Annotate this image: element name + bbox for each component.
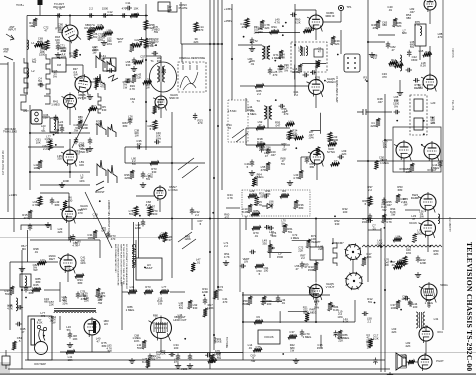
svg-text:R394.7K: R394.7K	[96, 119, 102, 126]
capacitor C66	[190, 208, 194, 215]
resistor R85	[252, 226, 261, 230]
svg-text:TO ANT300 OHM: TO ANT300 OHM	[53, 2, 66, 9]
junction (power)	[400, 309, 402, 311]
resistor (tuner)	[74, 49, 78, 58]
resistor R116	[408, 360, 415, 364]
ground	[87, 146, 93, 151]
tube V7 video det	[58, 253, 76, 274]
wire	[238, 44, 262, 46]
tube V18 damper	[418, 192, 436, 213]
tube V19 horiz out	[419, 219, 436, 239]
rect hatch	[423, 288, 435, 296]
junction (sync)	[295, 147, 297, 149]
wire jog	[44, 96, 50, 104]
svg-text:C7510K: C7510K	[256, 345, 262, 352]
wire jog	[20, 95, 27, 110]
svg-text:BOOST: BOOST	[95, 190, 105, 194]
tube V17 audio output	[422, 141, 440, 162]
capacitor (bottom2)	[205, 353, 212, 357]
terminal pin	[347, 67, 349, 69]
capacitor (sound)	[407, 50, 411, 57]
svg-text:L82330: L82330	[157, 56, 162, 63]
ground	[397, 90, 403, 95]
component box osc slug	[103, 58, 116, 71]
svg-text:C36470: C36470	[100, 82, 106, 89]
resistor R72	[28, 210, 32, 219]
svg-text:L1: L1	[31, 41, 35, 45]
svg-text:C41470: C41470	[222, 297, 228, 304]
wire	[30, 132, 90, 134]
wire	[82, 92, 84, 100]
junction	[367, 160, 369, 162]
wire	[29, 180, 31, 190]
waveform	[107, 58, 115, 72]
svg-text:L785%: L785%	[129, 209, 134, 216]
svg-text:2.2: 2.2	[89, 7, 93, 11]
wire	[5, 350, 7, 356]
wire	[5, 365, 7, 369]
ground	[19, 266, 25, 271]
svg-text:6CU6: 6CU6	[409, 221, 417, 225]
terminal pin	[354, 62, 356, 64]
junction	[213, 177, 215, 179]
junction	[213, 43, 215, 45]
resistor R84	[294, 200, 298, 209]
svg-text:C14470: C14470	[198, 25, 204, 32]
wire	[315, 219, 317, 248]
tube pin fan	[154, 322, 167, 332]
capacitor C41	[386, 42, 390, 49]
castellated shield line	[333, 238, 337, 266]
component box in shield	[314, 49, 323, 57]
wire	[68, 193, 70, 207]
CRT neck symbol	[35, 342, 48, 355]
inductor L25	[438, 214, 440, 224]
capacitor (conv)	[152, 51, 159, 55]
capacitor C52	[394, 110, 401, 114]
wire (vout)	[320, 335, 322, 348]
wire	[159, 199, 161, 212]
svg-text:R21330.5W: R21330.5W	[303, 306, 308, 315]
svg-text:R11K: R11K	[29, 21, 33, 28]
capacitor (vert)	[264, 225, 271, 229]
svg-text:L4110K: L4110K	[68, 355, 73, 362]
junction	[221, 43, 223, 45]
svg-text:FOCUS: FOCUS	[264, 335, 273, 339]
resistor R114	[288, 335, 297, 339]
svg-text:300 OHMTWIN LEAD: 300 OHMTWIN LEAD	[3, 127, 17, 134]
junction	[315, 321, 317, 323]
resistor R87	[314, 262, 318, 271]
svg-text:L294.7K: L294.7K	[249, 189, 255, 196]
diagonal slash	[232, 129, 248, 142]
resistor R42	[48, 140, 52, 150]
svg-text:C37.047: C37.047	[289, 330, 295, 337]
junction	[217, 286, 219, 288]
junction (sync)	[269, 107, 271, 109]
potentiometer vert hold wiper	[272, 247, 275, 249]
svg-text:C864.7K: C864.7K	[72, 241, 78, 248]
capacitor (HV)	[15, 322, 22, 326]
svg-text:C764.7K: C764.7K	[315, 75, 321, 82]
inductor L16	[400, 55, 402, 71]
junction (video IF)	[243, 36, 245, 38]
wire	[191, 219, 193, 231]
tube V21 horiz output	[149, 316, 172, 342]
resistor R11	[144, 20, 148, 30]
junction (sweep)	[203, 294, 205, 296]
wire (vout)	[279, 311, 281, 323]
capacitor C99	[408, 300, 412, 307]
terminal pin	[354, 57, 356, 59]
svg-text:100K: 100K	[63, 179, 70, 183]
capacitor C35	[136, 145, 143, 149]
svg-text:R9110K: R9110K	[265, 189, 271, 196]
resistor R13	[130, 14, 139, 18]
junction (audio)	[396, 120, 398, 122]
resistor R82	[280, 194, 289, 198]
wire	[0, 289, 12, 291]
svg-text:+140V: +140V	[9, 193, 17, 197]
junction (hout)	[390, 261, 392, 263]
junction	[231, 58, 233, 60]
fold line	[0, 352, 476, 354]
wire	[82, 65, 84, 76]
resistor R103	[66, 350, 75, 354]
resistor (sweep)	[203, 308, 207, 317]
wire	[295, 9, 316, 11]
waveform RF response	[96, 52, 105, 68]
capacitor C97	[276, 296, 280, 303]
capacitor C96	[203, 298, 207, 305]
svg-text:SWEEP PLATE CIRCUITS WITH ORDI: SWEEP PLATE CIRCUITS WITH ORDINARY	[119, 244, 122, 287]
svg-text:OVERALL RESPONSE: OVERALL RESPONSE	[179, 57, 205, 60]
svg-text:TO YOKE: TO YOKE	[225, 337, 228, 348]
svg-text:V105: V105	[181, 367, 188, 371]
resistor R15	[132, 74, 136, 83]
svg-text:R131500: R131500	[308, 265, 315, 272]
svg-text:C57680: C57680	[309, 162, 315, 169]
tube V3 1st IF amp	[62, 93, 77, 111]
svg-text:R608.2K: R608.2K	[295, 18, 301, 25]
svg-text:L70.047: L70.047	[101, 226, 107, 233]
component box height	[310, 247, 323, 260]
wire	[29, 105, 31, 180]
component box quad coil	[415, 24, 426, 46]
wire	[323, 21, 341, 23]
svg-text:L55330: L55330	[126, 60, 131, 67]
svg-text:L6922K: L6922K	[342, 149, 347, 156]
junction (sound IF)	[145, 120, 147, 122]
potentiometer vert size wiper	[332, 305, 335, 307]
ground	[45, 222, 51, 227]
resistor R52	[256, 143, 265, 147]
resistor R75	[134, 206, 138, 216]
tube V9 video amp	[307, 78, 324, 98]
svg-text:ANT: ANT	[23, 109, 29, 113]
svg-text:6AU6SND IF: 6AU6SND IF	[169, 93, 179, 100]
junction (conv)	[155, 44, 157, 46]
svg-text:L5222K: L5222K	[286, 133, 291, 140]
resistor (HV)	[12, 341, 16, 350]
wire	[59, 282, 61, 302]
svg-text:R85120K: R85120K	[184, 234, 191, 241]
resistor (conv2)	[133, 43, 142, 47]
diode X1	[262, 204, 272, 209]
wire bottom inner bus	[25, 359, 385, 361]
resistor R101	[10, 286, 14, 295]
junction (hout)	[430, 245, 432, 247]
capacitor C91	[24, 286, 28, 293]
wire	[180, 2, 182, 44]
junction	[209, 218, 211, 220]
svg-text:R54680: R54680	[406, 13, 412, 20]
capacitor C46	[250, 160, 254, 167]
wire	[160, 56, 162, 66]
svg-text:R88330.5W: R88330.5W	[216, 351, 221, 360]
junction (sound)	[366, 80, 368, 82]
svg-text:R48.047: R48.047	[377, 97, 383, 104]
svg-text:C15470: C15470	[148, 172, 154, 179]
resistor R32	[260, 20, 264, 29]
tube V11 horiz osc	[154, 185, 166, 201]
capacitor C73	[300, 262, 304, 269]
resistor R92	[396, 194, 400, 203]
capacitor (sync2)	[279, 104, 286, 108]
wire	[429, 46, 431, 75]
wire	[136, 195, 154, 197]
ground	[187, 363, 193, 368]
svg-text:R60470: R60470	[224, 213, 230, 220]
resistor R5	[88, 30, 92, 40]
resistor R21	[194, 22, 198, 32]
capacitor (HV)	[17, 305, 24, 309]
junction (vert)	[308, 241, 310, 243]
waveform marker	[108, 75, 118, 81]
wire	[69, 164, 71, 178]
wire	[380, 228, 382, 372]
capacitor C25	[303, 73, 310, 77]
inductor L9	[306, 46, 308, 56]
dotted box sync shield	[242, 190, 310, 216]
junction	[315, 294, 317, 296]
svg-text:C35470: C35470	[136, 139, 142, 146]
resistor R45	[376, 20, 380, 29]
wire	[340, 30, 342, 54]
wire antenna lead	[7, 62, 9, 212]
svg-text:C7222K: C7222K	[298, 246, 304, 253]
svg-text:R86470.5W: R86470.5W	[78, 115, 83, 124]
junction (hout)	[384, 227, 386, 229]
junction (HV)	[43, 335, 45, 337]
box audio stage	[393, 127, 441, 172]
wire	[429, 10, 431, 24]
scan smudge left	[0, 362, 10, 373]
antenna arrow	[6, 34, 14, 40]
svg-text:C4010K10%: C4010K10%	[156, 131, 162, 140]
wire (video IF)	[294, 65, 296, 80]
svg-text:+135V: +135V	[224, 7, 232, 11]
junction (hosc)	[139, 215, 141, 217]
transformer T1 1st IF	[157, 66, 165, 82]
scan edge bottom	[0, 373, 476, 375]
resistor (conv)	[134, 60, 143, 64]
wire vert bus 3	[217, 0, 219, 300]
terminal	[38, 0, 43, 5]
junction (video IF)	[250, 41, 252, 43]
resistor (vout)	[305, 313, 309, 322]
resistor R111	[248, 296, 252, 305]
wire	[378, 34, 395, 36]
svg-text:R9.01: R9.01	[399, 258, 403, 265]
wire (sync)	[320, 113, 322, 134]
junction (vout)	[282, 353, 284, 355]
wire	[21, 250, 23, 369]
svg-text:R34120K: R34120K	[202, 287, 209, 294]
waveform	[108, 165, 117, 183]
resistor (hout)	[413, 234, 417, 243]
wire right edge rail	[442, 0, 444, 330]
resistor (sync)	[328, 142, 337, 146]
label caution smalltext	[114, 244, 128, 290]
resistor (tuner)	[95, 26, 104, 30]
junction	[171, 162, 173, 164]
resistor R37	[255, 84, 264, 88]
wire	[226, 207, 240, 209]
svg-text:ION TRAP: ION TRAP	[34, 363, 46, 366]
tube V22 vert output	[308, 283, 323, 301]
svg-text:R69100: R69100	[266, 299, 272, 306]
svg-text:R23470: R23470	[198, 118, 204, 125]
wire	[67, 271, 69, 282]
wire	[406, 361, 418, 363]
junction	[384, 139, 386, 141]
svg-text:L2222K: L2222K	[58, 227, 63, 234]
switch contact	[98, 93, 101, 113]
junction	[384, 218, 386, 220]
svg-text:P101YOKE: P101YOKE	[214, 337, 221, 344]
wire	[242, 294, 330, 296]
wire	[135, 240, 137, 258]
svg-text:1N64DET: 1N64DET	[48, 254, 56, 261]
fold line	[0, 237, 170, 239]
svg-text:L9022K: L9022K	[84, 296, 89, 303]
resistor (hosc)	[158, 235, 167, 239]
resistor (bottom2)	[208, 359, 217, 363]
svg-text:L4622K: L4622K	[318, 244, 323, 251]
capacitor C120	[176, 354, 180, 361]
svg-text:L17680: L17680	[91, 104, 96, 111]
capacitor	[102, 13, 109, 17]
resistor R115	[338, 330, 342, 339]
component box xtal	[158, 2, 170, 11]
junction (video IF)	[285, 22, 287, 24]
svg-text:R458.2K.5W: R458.2K.5W	[381, 203, 387, 212]
svg-text:L35470: L35470	[145, 77, 150, 84]
junction (HV)	[25, 297, 27, 299]
svg-text:DO NOT ATTEMPT VOLTAGE MEASURE: DO NOT ATTEMPT VOLTAGE MEASUREMENT	[125, 244, 128, 290]
wire	[171, 112, 173, 278]
capacitor (conv)	[139, 37, 143, 44]
wire	[385, 139, 392, 141]
resistor (tuner)	[87, 29, 96, 33]
junction (audio)	[421, 144, 423, 146]
resistor (sound IF)	[153, 105, 157, 114]
inductor L5	[25, 276, 27, 286]
svg-text:C178.2K: C178.2K	[373, 334, 379, 341]
fold line	[0, 218, 476, 220]
wire (video IF)	[302, 63, 326, 65]
HV rect anode	[93, 321, 96, 333]
core ticks	[303, 47, 304, 56]
wire	[371, 111, 392, 113]
resistor R107	[160, 290, 169, 294]
svg-text:L165%: L165%	[66, 325, 71, 332]
tube socket V13 vert osc	[345, 272, 363, 290]
wire	[99, 240, 101, 258]
junction	[242, 321, 244, 323]
svg-text:AT THE HORIZ OUTPUT TUBE OR AT: AT THE HORIZ OUTPUT TUBE OR AT THE	[122, 244, 125, 285]
svg-text:R73470: R73470	[110, 234, 116, 241]
wire (sync)	[311, 130, 321, 132]
svg-text:C7.01: C7.01	[372, 224, 376, 231]
resistor (tuner)	[104, 32, 113, 36]
resistor R12	[144, 38, 148, 48]
junction (power)	[374, 302, 376, 304]
capacitor C92	[68, 332, 72, 339]
wire (vert)	[268, 252, 291, 254]
svg-text:R94680: R94680	[77, 278, 83, 285]
svg-text:C92.2: C92.2	[256, 315, 260, 322]
transformer T3 sound take-off	[264, 106, 272, 119]
resistor (sync)	[331, 162, 340, 166]
dashed box discriminator	[410, 95, 427, 135]
component box fuse	[2, 356, 10, 365]
ground	[87, 94, 93, 99]
wire (vout)	[288, 311, 307, 313]
ground	[369, 52, 375, 57]
svg-text:R8622K: R8622K	[396, 21, 402, 28]
svg-text:M: M	[182, 63, 184, 65]
svg-text:L42680: L42680	[55, 200, 60, 207]
capacitor C14	[132, 58, 136, 65]
junction	[69, 171, 71, 173]
svg-text:FM: FM	[57, 63, 62, 67]
capacitor C83	[416, 256, 420, 263]
resistor R49	[130, 170, 134, 179]
resistor (tuner)	[95, 79, 99, 88]
svg-text:R4922K: R4922K	[334, 39, 340, 46]
wire	[30, 171, 90, 173]
resistor R61	[376, 118, 380, 127]
svg-text:R948.2K.5W: R948.2K.5W	[390, 207, 396, 216]
terminal strip panel	[344, 54, 360, 72]
svg-text:L8222K: L8222K	[406, 341, 411, 348]
resistor (vert)	[255, 197, 259, 206]
switch contact	[46, 54, 50, 94]
junction	[29, 132, 31, 134]
capacitor (tuner)	[38, 83, 45, 87]
svg-text:L415%: L415%	[32, 57, 37, 64]
junction	[57, 15, 59, 17]
wire	[368, 229, 381, 231]
resistor R56	[328, 132, 332, 142]
svg-text:R844.7K: R844.7K	[386, 217, 392, 224]
svg-text:PILOT: PILOT	[436, 359, 444, 363]
capacitor C51	[438, 161, 442, 168]
svg-text:R36680: R36680	[298, 203, 304, 210]
junction (vert)	[334, 215, 336, 217]
